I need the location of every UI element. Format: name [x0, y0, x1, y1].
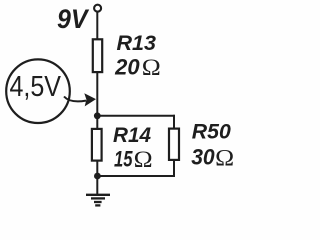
wire node B to ground: [96, 176, 98, 194]
svg-text:R13: R13: [117, 31, 157, 55]
wire node B to R50 branch (bottom horizontal): [97, 175, 175, 177]
terminal circle (9V input): [94, 5, 101, 12]
R50 bottom lead: [173, 160, 175, 176]
svg-text:20: 20: [114, 54, 140, 79]
node B junction dot: [94, 173, 101, 180]
svg-text:15: 15: [114, 146, 133, 171]
svg-text:4,5V: 4,5V: [10, 71, 62, 103]
ground: [86, 195, 110, 206]
svg-text:R14: R14: [113, 123, 151, 147]
voltage annotation circle 4,5V: [6, 59, 70, 123]
resistor R14: [92, 129, 102, 161]
svg-text:9V: 9V: [57, 4, 89, 34]
resistor R50: [169, 129, 179, 160]
wire node A to R50 branch (top horizontal): [97, 115, 175, 117]
arrow from 4,5V circle to wire: [64, 97, 86, 102]
svg-text:Ω: Ω: [215, 145, 234, 170]
resistor R13: [93, 39, 102, 72]
wire terminal to R13: [96, 12, 98, 40]
wire R14 to node B: [96, 161, 98, 176]
node A junction dot: [94, 112, 101, 119]
svg-text:R50: R50: [192, 119, 231, 143]
wire R13 to node A: [96, 73, 98, 130]
svg-text:Ω: Ω: [134, 147, 153, 172]
branch vertical wire (R50 top lead): [173, 115, 175, 129]
svg-text:Ω: Ω: [142, 55, 161, 80]
svg-text:30: 30: [191, 144, 215, 169]
